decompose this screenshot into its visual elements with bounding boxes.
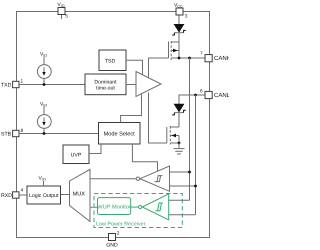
pin 7 CANH bbox=[205, 55, 212, 62]
pin 1 TXD bbox=[13, 81, 19, 87]
WUP monitor block U9 bbox=[98, 198, 131, 215]
hysteresis symbol main receiver bbox=[155, 176, 163, 182]
svg-text:GND: GND bbox=[106, 243, 118, 249]
svg-text:6: 6 bbox=[200, 89, 203, 95]
current source I1 (TXD pull-up) bbox=[37, 57, 51, 85]
svg-text:2: 2 bbox=[117, 231, 120, 237]
node PMOS source/body junction bbox=[178, 57, 181, 60]
svg-text:1: 1 bbox=[21, 79, 24, 85]
wire NMOS gate drive from driver bottom edge bbox=[149, 93, 167, 144]
wire low power receiver output to WUP monitor bbox=[131, 206, 139, 208]
wire receiver input CANL bbox=[170, 185, 196, 187]
label VIO current source I1 bbox=[40, 52, 47, 58]
node CANL sense tap bbox=[194, 94, 197, 97]
svg-text:STB: STB bbox=[1, 132, 12, 138]
diode D1 (VCC series diode) bbox=[172, 25, 186, 43]
wire PMOS gate drive from driver top edge bbox=[149, 58, 169, 78]
op-amp low power receiver U10 bbox=[131, 194, 169, 220]
node CANH sense tap bbox=[188, 57, 191, 60]
svg-text:TSD: TSD bbox=[105, 58, 116, 64]
op-amp main receiver U6 bbox=[140, 166, 170, 191]
dominant time out block U2 bbox=[85, 74, 126, 95]
wire WUP monitor to MUX bbox=[90, 206, 98, 208]
transistor Q1 PMOS high-side bbox=[169, 41, 180, 60]
svg-text:7: 7 bbox=[200, 51, 203, 57]
ground bbox=[174, 143, 185, 154]
pin 8 STB bbox=[13, 130, 19, 136]
node TXD pull-up junction bbox=[43, 83, 46, 86]
label VCC pin 3 bbox=[174, 3, 188, 20]
wire CANH sense vertical bbox=[189, 58, 191, 200]
label VIO pin 5 bbox=[57, 2, 68, 20]
wire TSD to driver bbox=[126, 60, 143, 75]
pin 2 GND bbox=[109, 234, 116, 241]
svg-text:RXD: RXD bbox=[1, 193, 12, 199]
label VIO current source I2 bbox=[40, 102, 47, 108]
svg-text:UVP: UVP bbox=[71, 152, 82, 158]
diode D2 (CANL series diode) bbox=[172, 104, 186, 127]
low power receiver dashed enclosure bbox=[94, 194, 182, 228]
svg-text:3: 3 bbox=[185, 14, 188, 20]
svg-text:4: 4 bbox=[21, 188, 24, 194]
wire CANL rail bbox=[179, 95, 205, 104]
wire TXD to dominant time out bbox=[19, 84, 85, 86]
pin 4 RXD bbox=[13, 192, 19, 198]
svg-text:VIO: VIO bbox=[57, 2, 64, 8]
wire mode select to receiver enable bbox=[132, 144, 157, 171]
svg-text:VIO: VIO bbox=[40, 102, 47, 108]
svg-text:VCC: VCC bbox=[174, 3, 183, 9]
wire mode select to driver enable bbox=[121, 94, 142, 122]
node NMOS source junction bbox=[178, 142, 181, 145]
svg-text:Logic Output: Logic Output bbox=[29, 193, 59, 199]
wire CANL sense vertical bbox=[195, 95, 197, 215]
wire UVP to mode select bbox=[89, 144, 101, 154]
svg-text:5: 5 bbox=[65, 14, 68, 20]
svg-text:CANL: CANL bbox=[214, 92, 229, 99]
outer device boundary box bbox=[17, 12, 210, 238]
wire low power receiver input CANH bbox=[169, 199, 190, 201]
node STB pull-up junction bbox=[43, 132, 46, 135]
svg-text:VIO: VIO bbox=[39, 176, 46, 182]
hysteresis symbol low power receiver bbox=[155, 203, 163, 211]
TSD block U1 bbox=[99, 50, 126, 71]
op-amp driver U3 bbox=[136, 72, 161, 97]
svg-text:VIO: VIO bbox=[40, 52, 47, 58]
pin 6 CANL bbox=[205, 91, 212, 98]
current source I2 (STB pull-up) bbox=[37, 107, 51, 134]
svg-text:WUP Monitor: WUP Monitor bbox=[97, 204, 131, 211]
pin 3 VCC bbox=[176, 8, 183, 25]
logic output block U8 bbox=[27, 186, 61, 204]
pin 5 VIO bbox=[58, 8, 65, 20]
wire low power receiver input CANL bbox=[169, 214, 196, 216]
wire receiver output to MUX bbox=[90, 178, 136, 180]
wire receiver input CANH bbox=[170, 171, 190, 173]
svg-text:MUX: MUX bbox=[73, 191, 86, 197]
mode select block U4 bbox=[99, 123, 141, 145]
transistor Q2 NMOS low-side bbox=[167, 126, 179, 145]
MUX block U7 bbox=[70, 169, 91, 221]
wire RXD to logic output bbox=[19, 194, 27, 196]
svg-text:TXD: TXD bbox=[1, 82, 12, 88]
svg-text:CANH: CANH bbox=[214, 55, 229, 62]
svg-text:Low Power Receiver: Low Power Receiver bbox=[96, 221, 146, 227]
wire dominant time out to driver bbox=[126, 84, 136, 86]
wire STB to mode select bbox=[19, 133, 99, 135]
label VIO logic output supply bbox=[43, 181, 45, 186]
UVP block U5 bbox=[63, 145, 89, 164]
svg-text:time-out: time-out bbox=[96, 85, 115, 91]
wire MUX to logic output bbox=[61, 194, 70, 196]
label GND pin 2 bbox=[106, 231, 120, 249]
wire CANH rail bbox=[171, 57, 205, 59]
svg-text:Mode Select: Mode Select bbox=[104, 130, 136, 137]
